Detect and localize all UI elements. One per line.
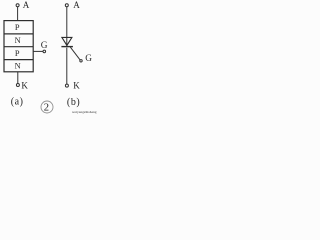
- svg-text:(b): (b): [67, 97, 80, 108]
- svg-text:2: 2: [44, 102, 49, 113]
- svg-text:(a): (a): [11, 96, 24, 107]
- svg-text:P: P: [15, 49, 20, 58]
- svg-text:P: P: [15, 23, 20, 32]
- svg-text:G: G: [41, 41, 48, 51]
- svg-text:K: K: [21, 81, 28, 91]
- svg-text:N: N: [15, 36, 21, 45]
- svg-text:N: N: [15, 61, 21, 70]
- svg-text:A: A: [23, 0, 30, 10]
- svg-text:K: K: [73, 81, 80, 91]
- svg-text:weiyangzhisheng: weiyangzhisheng: [72, 110, 97, 114]
- svg-text:A: A: [73, 0, 80, 10]
- svg-text:G: G: [85, 54, 92, 64]
